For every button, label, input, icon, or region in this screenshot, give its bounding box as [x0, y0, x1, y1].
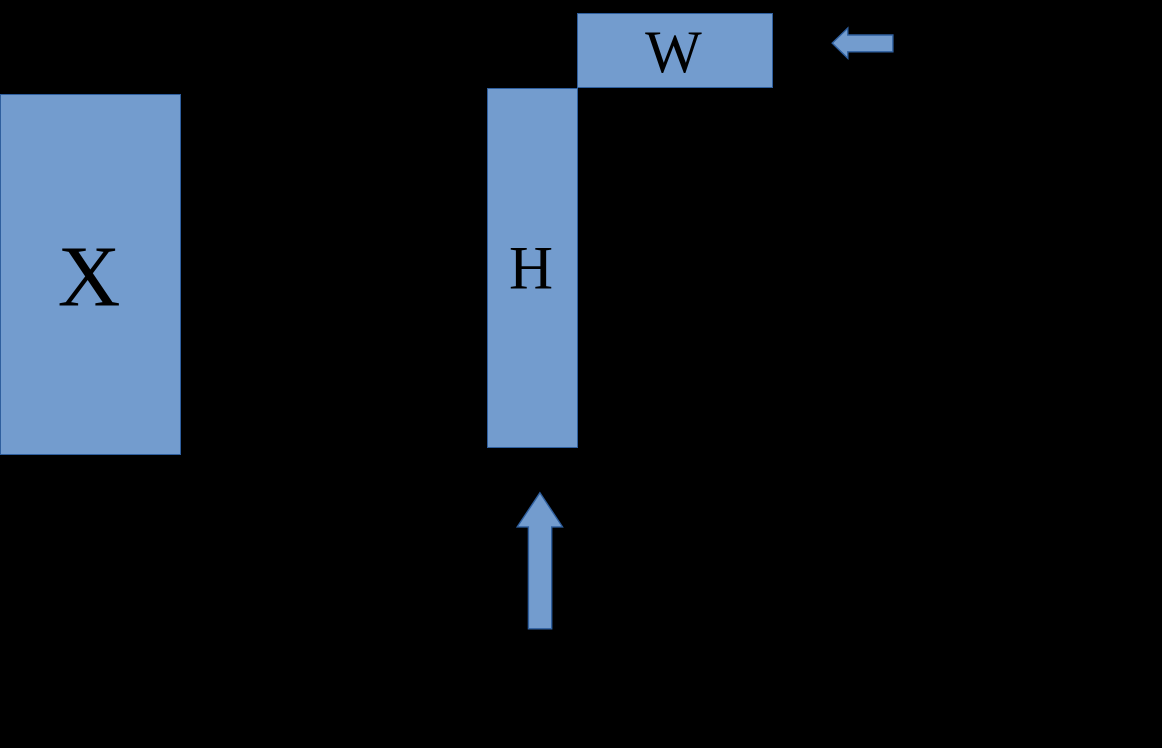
label H [509, 238, 553, 299]
left arrow pointing at W [832, 28, 893, 58]
matrix X rectangle [0, 94, 181, 455]
up arrow below H [517, 493, 562, 629]
label W [645, 22, 702, 82]
label X [58, 233, 121, 320]
matrix W rectangle [577, 13, 772, 88]
matrix H rectangle [487, 88, 577, 449]
